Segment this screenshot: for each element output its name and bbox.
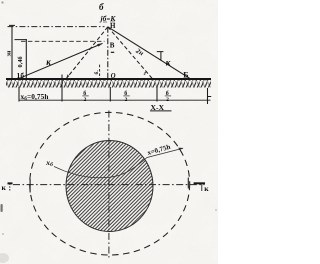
svg-text:зн: зн [7,50,13,57]
dim end hook [208,88,212,104]
svg-text:к: к [204,184,209,193]
inner hatched circle (cone base) [66,141,153,232]
arrowhead at plan leader end [178,148,183,151]
svg-text:0,4б: 0,4б [17,56,24,67]
dim tick 2 [61,75,63,102]
svg-text:2: 2 [125,97,128,103]
center vertical axis of cone [107,27,109,79]
leader curve through centre [54,148,183,178]
fraction b/2 no.3 [165,90,171,103]
ground hatch band [6,80,211,88]
svg-text:к: к [166,58,171,68]
svg-text:б: б [99,2,104,12]
fraction b/2 no.2 [123,90,129,103]
svg-text:к: к [2,183,7,192]
svg-text:б.: б. [93,70,100,75]
section mark left bar [8,182,13,184]
outer dashed circle (dump boundary) [30,112,190,255]
tick under B [111,52,114,53]
paper background [0,0,218,264]
right dashed cone side [108,27,153,79]
small arrow at left dashed base [66,74,69,78]
outer circle right cross dash [187,178,189,189]
ground line [6,78,211,80]
small dashed height line near centroid [99,65,101,79]
svg-text:В: В [110,41,115,49]
small underline dashes under jb=K [103,21,115,23]
left leader R with arrow to axis point [20,43,103,78]
dimension chain baseline [19,99,211,101]
top level dash-dot line at apex height [8,26,105,28]
svg-text:к: к [46,57,51,67]
right solid slope line to B [108,27,190,79]
vertical centre axis [108,111,110,258]
scan specks [1,1,3,3]
T mark on right slope [157,52,164,61]
dimension line V2 with T top [15,40,28,79]
outer circle left cross dash [29,179,31,193]
horizontal centre axis [13,184,205,186]
svg-text:2: 2 [84,97,87,103]
level dashed line at B height [21,40,105,42]
section mark right bar [194,182,205,184]
dim tick 3 [109,87,111,102]
left dashed cone side [66,27,108,79]
dim tick 1 [18,87,20,102]
dimension line V1 (full height) [9,25,15,78]
dim tick 4 [156,86,158,102]
fraction b/2 no.1 [82,90,88,103]
svg-text:2: 2 [166,97,169,103]
